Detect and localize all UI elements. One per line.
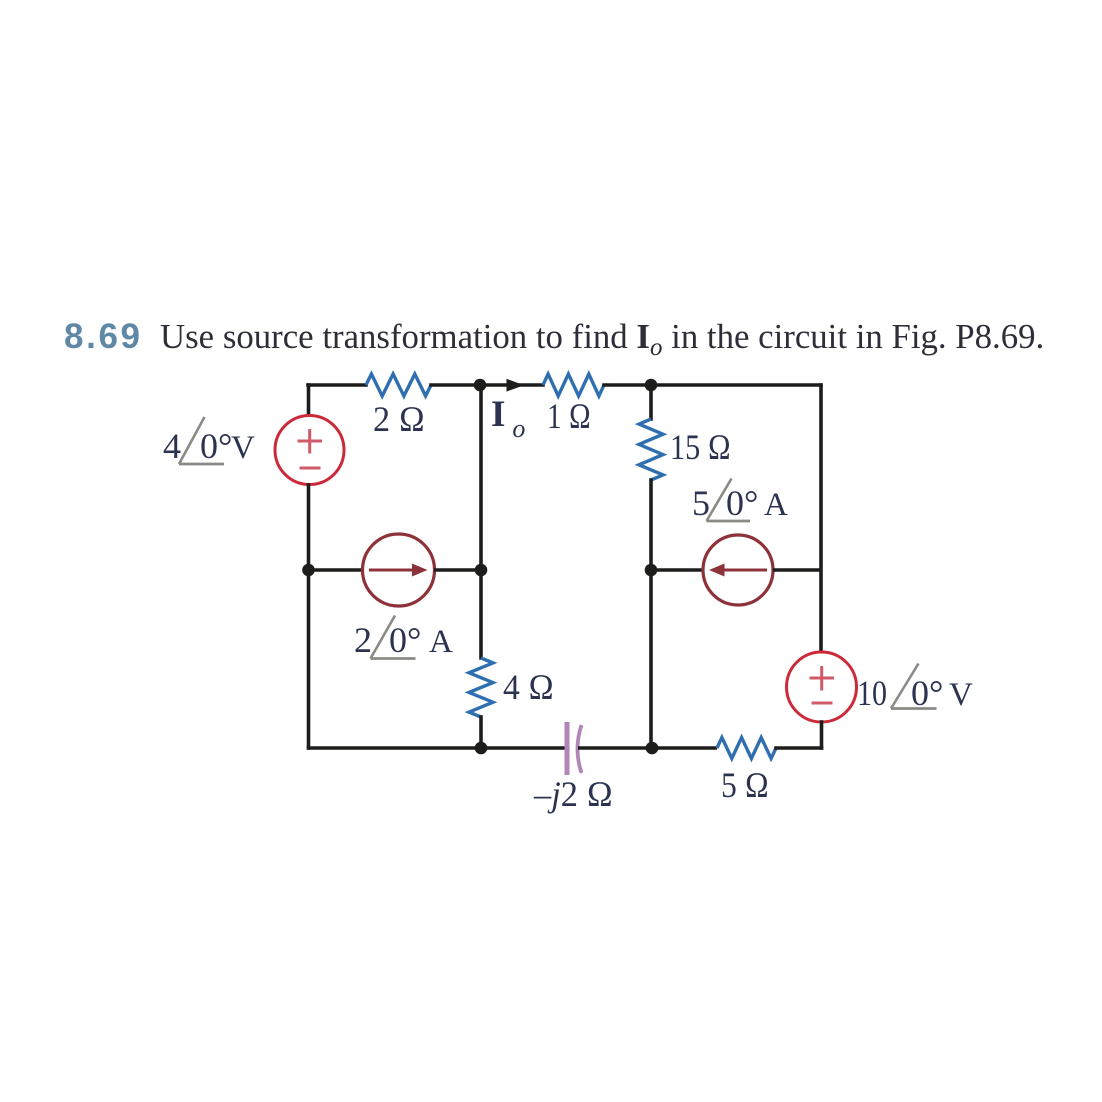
current source 5A circle <box>703 535 773 605</box>
svg-text:0°: 0° <box>389 620 421 660</box>
svg-text:2: 2 <box>354 620 372 660</box>
capacitor right plate (curved) <box>578 725 582 773</box>
node bottom-right junction <box>646 742 659 755</box>
wire bottom left segment <box>309 746 565 750</box>
node middle-left junction <box>302 564 315 577</box>
minus sign of 10V source <box>812 702 833 705</box>
wire middle-left horizontal (left part) <box>309 568 364 572</box>
wire middle-right horizontal (left part) <box>651 568 703 572</box>
capacitor -j2 ohm <box>567 722 582 775</box>
resistor 4ohm (middle vertical) <box>469 658 493 717</box>
svg-text:–j2 Ω: –j2 Ω <box>533 774 613 814</box>
wire right-internal vertical lower <box>649 480 653 748</box>
svg-text:1 Ω: 1 Ω <box>547 396 591 436</box>
svg-text:0°: 0° <box>726 483 758 523</box>
node middle-center junction <box>475 564 488 577</box>
svg-text:0°: 0° <box>200 426 232 466</box>
svg-text:V: V <box>949 677 973 713</box>
svg-text:V: V <box>231 430 255 466</box>
svg-text:4 Ω: 4 Ω <box>503 667 554 707</box>
wire middle-left horizontal (right part) <box>434 568 481 572</box>
label 4 angle 0 V <box>163 417 255 466</box>
svg-text:4: 4 <box>163 426 181 466</box>
svg-text:5 Ω: 5 Ω <box>721 765 769 805</box>
plus sign of 4V source <box>298 429 323 454</box>
label 10 angle 0 V <box>857 664 973 714</box>
wire middle vertical upper <box>479 385 483 658</box>
wire left vertical lower <box>307 485 311 748</box>
svg-text:15 Ω: 15 Ω <box>670 427 731 467</box>
node bottom-center junction <box>475 742 488 755</box>
wire right vertical lower <box>820 722 824 748</box>
wire top-right segment <box>604 383 821 387</box>
capacitor left plate <box>565 722 570 775</box>
label 5 angle 0 A <box>692 479 788 524</box>
wire bottom right segment <box>776 746 822 750</box>
voltage source 10V circle <box>787 652 857 722</box>
wire middle-right horizontal (right part) <box>773 568 821 572</box>
wire right-internal vertical upper <box>649 385 653 419</box>
resistor 15ohm (right internal vertical) <box>639 419 663 480</box>
wire left vertical upper <box>307 385 311 415</box>
minus sign of 4V source <box>300 467 321 470</box>
arrow of 2A source pointing right <box>369 569 414 572</box>
svg-text:5: 5 <box>692 483 710 523</box>
resistor 1ohm (top middle) <box>543 374 604 396</box>
wire right vertical upper <box>819 385 823 652</box>
svg-text:10: 10 <box>857 673 887 713</box>
svg-text:Use source transformation to f: Use source transformation to find Io in … <box>160 317 1044 361</box>
wire top-left segment <box>308 383 366 387</box>
voltage source 4V circle <box>275 416 344 485</box>
wire bottom middle segment <box>578 746 717 750</box>
node top-center junction <box>474 379 487 392</box>
svg-text:2 Ω: 2 Ω <box>373 399 425 439</box>
label 2 angle 0 A <box>354 616 453 661</box>
svg-text:A: A <box>429 624 453 660</box>
resistor 5ohm (bottom right) <box>717 738 776 759</box>
svg-text:0°: 0° <box>911 673 943 713</box>
current source 2A circle <box>363 534 435 606</box>
node middle-right junction <box>645 564 658 577</box>
svg-text:8.69: 8.69 <box>64 317 140 356</box>
resistor 2ohm (top left) <box>366 374 431 396</box>
svg-text:A: A <box>764 487 788 523</box>
plus sign of 10V source <box>810 666 835 691</box>
arrow of 5A source pointing left <box>722 569 767 572</box>
wire top-middle segment <box>431 383 543 387</box>
arrow Io current direction <box>507 379 525 392</box>
wire middle vertical lower <box>479 717 483 748</box>
node top-right junction <box>645 379 658 392</box>
